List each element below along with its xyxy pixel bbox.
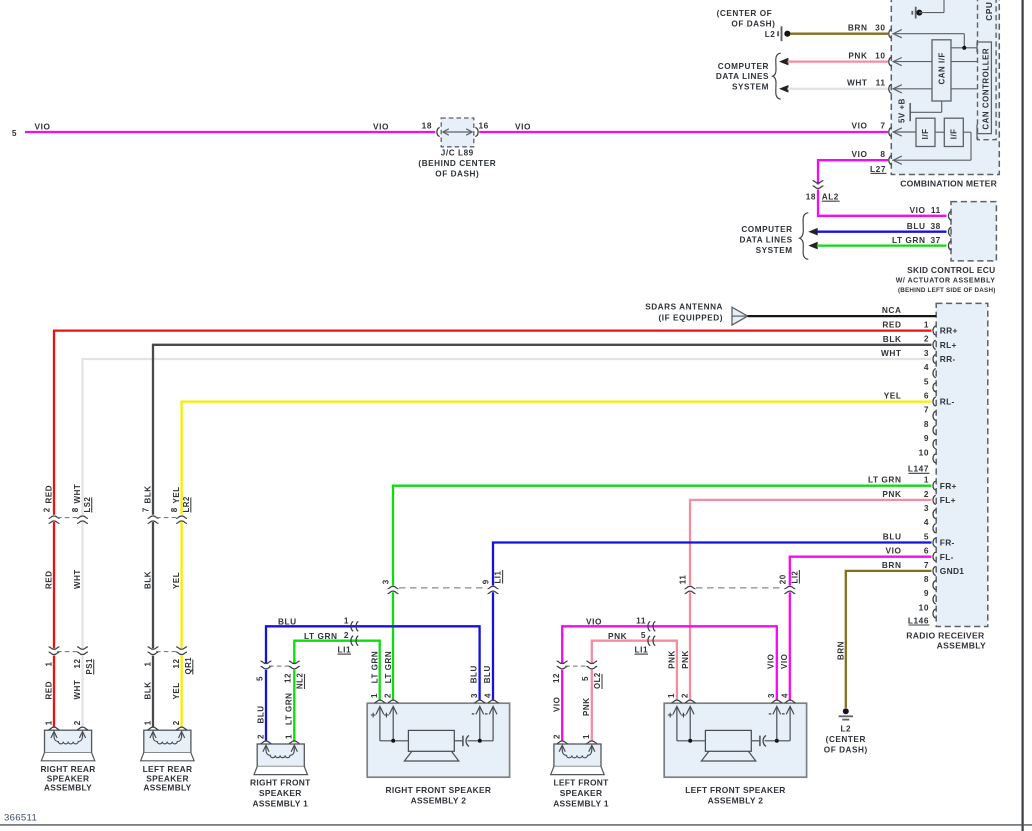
combination meter box fill xyxy=(891,0,999,175)
connector LI1 (blu half) xyxy=(488,586,499,593)
svg-text:NCA: NCA xyxy=(882,305,902,315)
OL2 tie line xyxy=(565,665,589,667)
svg-text:1: 1 xyxy=(285,734,294,739)
skid control ecu box fill+border xyxy=(951,202,996,261)
svg-text:1: 1 xyxy=(667,693,676,698)
wire VIO 8 upper segment xyxy=(818,160,888,184)
radio connector L146 pin 5 xyxy=(933,538,955,548)
svg-text:5: 5 xyxy=(641,630,646,640)
ground L2 (center of dash) top xyxy=(778,26,790,41)
right front speaker assembly 2 xyxy=(367,703,509,777)
left front speaker 2 caption xyxy=(685,785,785,805)
right front speaker 1 caption xyxy=(250,777,311,808)
svg-text:16: 16 xyxy=(479,120,489,130)
wire PNK to left speaker1 pin1 xyxy=(591,670,593,741)
skid ecu pin 38 terminal xyxy=(948,227,951,236)
connector LI1 (lt grn half) xyxy=(388,586,399,593)
svg-text:LT GRN: LT GRN xyxy=(285,693,294,725)
svg-text:SKID CONTROL ECU: SKID CONTROL ECU xyxy=(907,265,995,275)
svg-text:1: 1 xyxy=(924,475,929,485)
svg-text:+: + xyxy=(681,710,687,721)
svg-text:DATA LINES: DATA LINES xyxy=(716,72,769,81)
svg-text:1: 1 xyxy=(143,720,152,725)
svg-text:ASSEMBLY 2: ASSEMBLY 2 xyxy=(708,796,764,806)
svg-text:COMPUTER: COMPUTER xyxy=(718,62,769,71)
line brn pin internal xyxy=(893,33,965,35)
wire YEL RL- horizontal xyxy=(182,402,932,515)
svg-text:RL-: RL- xyxy=(940,397,955,407)
svg-text:1: 1 xyxy=(44,720,53,725)
svg-text:1: 1 xyxy=(924,320,929,330)
svg-text:8: 8 xyxy=(924,574,929,584)
radio connector L147 pin 1 xyxy=(933,326,958,336)
svg-text:8: 8 xyxy=(170,507,179,512)
svg-text:ASSEMBLY: ASSEMBLY xyxy=(143,783,191,793)
svg-text:4: 4 xyxy=(924,517,929,527)
left front speaker assembly 2 xyxy=(664,703,806,777)
combination meter pin 11 terminal xyxy=(889,84,902,93)
connector NL2 (lt grn half) xyxy=(289,661,300,669)
svg-text:38: 38 xyxy=(930,221,940,231)
svg-text:5: 5 xyxy=(924,531,929,541)
wire LT GRN to speaker1 pin1 xyxy=(293,670,295,741)
svg-text:3: 3 xyxy=(767,693,776,698)
right rear speaker assembly xyxy=(45,730,92,753)
ground symbol inside combination meter (top) xyxy=(912,7,922,19)
svg-text:VIO: VIO xyxy=(780,654,789,669)
can controller bracket xyxy=(977,42,991,139)
radio receiver caption xyxy=(906,631,986,651)
svg-text:DATA LINES: DATA LINES xyxy=(739,235,792,244)
svg-text:(CENTER OF: (CENTER OF xyxy=(717,9,773,18)
svg-text:OF DASH): OF DASH) xyxy=(435,169,479,178)
svg-text:+: + xyxy=(384,710,390,721)
svg-text:BLU: BLU xyxy=(483,665,492,683)
sdars antenna symbol xyxy=(732,307,748,325)
svg-text:L146: L146 xyxy=(908,615,929,625)
svg-text:VIO: VIO xyxy=(373,122,389,132)
LI2 tie line xyxy=(696,587,784,589)
svg-text:8: 8 xyxy=(71,507,80,512)
svg-text:L27: L27 xyxy=(870,164,886,174)
line can-if to can-controller (upper) xyxy=(951,47,977,49)
svg-text:2: 2 xyxy=(344,630,349,640)
connector PS1 (wht half) xyxy=(77,647,88,655)
svg-text:2: 2 xyxy=(73,720,82,725)
svg-text:2: 2 xyxy=(384,693,393,698)
svg-text:LI2: LI2 xyxy=(791,570,800,583)
svg-text:BLK: BLK xyxy=(143,485,152,503)
svg-text:VIO: VIO xyxy=(852,121,868,131)
wire WHT mid segment xyxy=(81,522,83,648)
svg-text:WHT: WHT xyxy=(73,680,82,700)
NL2 tie line xyxy=(269,665,291,667)
svg-text:VIO: VIO xyxy=(852,149,868,159)
radio connector L147 pin 8 xyxy=(933,425,936,434)
svg-text:VIO: VIO xyxy=(553,697,562,712)
svg-text:(CENTER: (CENTER xyxy=(826,735,866,744)
wire BLU to speaker2 pin4 xyxy=(492,592,494,700)
left rear speaker assembly xyxy=(144,730,191,753)
svg-text:I/F: I/F xyxy=(921,128,930,139)
junction dot on can-if line xyxy=(962,46,966,50)
radio connector L146 pin 8 xyxy=(933,581,936,590)
svg-text:-: - xyxy=(768,709,772,720)
wire BLU 38 xyxy=(817,231,947,233)
page right border line xyxy=(1021,0,1023,831)
svg-text:1: 1 xyxy=(44,662,53,667)
connector 11 on vio horizontal xyxy=(648,621,655,631)
svg-text:6: 6 xyxy=(924,546,929,556)
svg-text:FR-: FR- xyxy=(940,538,955,548)
svg-text:SPEAKER: SPEAKER xyxy=(259,788,302,798)
svg-text:+: + xyxy=(667,710,673,721)
svg-text:7: 7 xyxy=(141,507,150,512)
svg-text:BLU: BLU xyxy=(907,221,926,231)
J/C L89 caption xyxy=(418,149,496,179)
wire VIO to left speaker2 pin4 xyxy=(789,592,791,700)
svg-text:OL2: OL2 xyxy=(593,672,602,689)
i/f box 1 xyxy=(916,118,935,146)
svg-text:2: 2 xyxy=(42,507,51,512)
svg-text:BLK: BLK xyxy=(883,334,902,344)
svg-text:5: 5 xyxy=(12,128,17,138)
wire WHT 11 xyxy=(788,88,889,90)
skid ecu pin 11 terminal xyxy=(948,211,951,220)
wire BLU horizontal (speaker1 to speaker2 pin3) xyxy=(266,626,480,700)
radio connector L147 pin 6 xyxy=(933,397,955,407)
wire LT GRN to speaker2 pin2 xyxy=(392,592,394,700)
connector OL2 (vio half) xyxy=(557,661,568,669)
left rear speaker caption xyxy=(143,764,193,792)
LS2 tie line xyxy=(57,517,80,519)
svg-text:9: 9 xyxy=(924,433,929,443)
svg-text:BLK: BLK xyxy=(143,681,152,699)
svg-text:OF DASH): OF DASH) xyxy=(824,745,868,754)
radio connector L146 pin 1 xyxy=(933,481,957,491)
svg-text:+: + xyxy=(370,710,376,721)
svg-text:LEFT FRONT: LEFT FRONT xyxy=(553,777,609,787)
connector NL2 (blu half) xyxy=(261,661,272,669)
svg-text:PNK: PNK xyxy=(882,489,901,499)
wire YEL mid segment xyxy=(180,522,182,648)
svg-text:SYSTEM: SYSTEM xyxy=(756,246,793,255)
svg-text:10: 10 xyxy=(919,602,929,612)
svg-text:COMBINATION METER: COMBINATION METER xyxy=(900,179,997,189)
svg-text:4: 4 xyxy=(780,693,789,698)
svg-text:LT GRN: LT GRN xyxy=(384,651,393,683)
page bottom border line xyxy=(0,824,1032,826)
svg-text:CAN I/F: CAN I/F xyxy=(938,52,947,84)
svg-text:7: 7 xyxy=(880,121,885,131)
connector LR2 (yel half) xyxy=(176,516,187,523)
svg-text:18: 18 xyxy=(422,120,432,130)
svg-text:1: 1 xyxy=(370,693,379,698)
svg-text:3: 3 xyxy=(470,693,479,698)
wire BRN GND1 xyxy=(846,571,932,708)
LR2 tie line xyxy=(156,517,179,519)
svg-text:2: 2 xyxy=(924,489,929,499)
radio connector L147 pin 7 xyxy=(933,411,936,420)
svg-text:WHT: WHT xyxy=(73,569,82,589)
svg-text:10: 10 xyxy=(875,50,885,60)
svg-text:RED: RED xyxy=(882,320,901,330)
svg-text:-: - xyxy=(782,709,786,720)
svg-text:AL2: AL2 xyxy=(822,193,839,202)
line i/f box2 to vio8 pin xyxy=(963,131,971,133)
svg-text:YEL: YEL xyxy=(172,572,181,589)
svg-text:BRN: BRN xyxy=(837,641,846,660)
arrow blu (computer data lines) xyxy=(808,228,817,236)
wire YEL lower segment xyxy=(180,656,182,728)
svg-text:L147: L147 xyxy=(908,464,929,474)
connector LI2 (pnk half) xyxy=(685,586,696,593)
svg-text:7: 7 xyxy=(924,560,929,570)
radio connector L146 pin 10 xyxy=(933,609,936,618)
5v +b supply bar xyxy=(909,103,911,121)
svg-text:RIGHT FRONT: RIGHT FRONT xyxy=(250,777,311,787)
svg-text:BLU: BLU xyxy=(883,532,902,542)
svg-text:11: 11 xyxy=(876,78,886,88)
svg-text:ASSEMBLY: ASSEMBLY xyxy=(937,640,986,650)
svg-text:CPU: CPU xyxy=(984,2,994,21)
svg-text:1: 1 xyxy=(143,662,152,667)
radio connector L146 pin 3 xyxy=(933,510,936,519)
svg-text:2: 2 xyxy=(256,734,265,739)
svg-text:6: 6 xyxy=(924,391,929,401)
wire VIO FL- from radio xyxy=(790,557,932,586)
right rear speaker caption xyxy=(40,764,95,792)
computer data lines system label (lower) xyxy=(739,225,792,255)
svg-text:L2: L2 xyxy=(765,30,776,39)
skid control ecu caption xyxy=(896,265,996,294)
wire RED mid segment xyxy=(53,522,55,648)
ground L2 (center of dash) bottom xyxy=(839,708,853,719)
svg-text:FL+: FL+ xyxy=(940,495,956,505)
wire PNK horizontal (speaker1 to left speaker2 pin1) xyxy=(592,641,677,701)
svg-text:WHT: WHT xyxy=(73,484,82,504)
connector LS2 (red half) xyxy=(49,516,60,523)
svg-text:VIO: VIO xyxy=(910,205,926,215)
svg-text:LS2: LS2 xyxy=(83,496,92,512)
svg-text:(BEHIND CENTER: (BEHIND CENTER xyxy=(418,159,496,168)
svg-text:ASSEMBLY: ASSEMBLY xyxy=(44,783,92,793)
wire BLU to speaker1 pin2 xyxy=(265,670,267,741)
svg-text:7: 7 xyxy=(924,405,929,415)
svg-text:YEL: YEL xyxy=(172,486,181,503)
svg-text:COMPUTER: COMPUTER xyxy=(741,225,792,234)
arrow pnk (computer data lines) xyxy=(779,58,788,66)
svg-text:BRN: BRN xyxy=(848,22,868,32)
svg-text:SPEAKER: SPEAKER xyxy=(560,788,603,798)
svg-text:PNK: PNK xyxy=(668,650,677,669)
svg-text:3: 3 xyxy=(924,503,929,513)
svg-text:LI1: LI1 xyxy=(635,644,649,654)
svg-text:3: 3 xyxy=(924,348,929,358)
svg-text:11: 11 xyxy=(679,575,688,585)
wire VIO left segment xyxy=(25,131,435,133)
wire PNK FL+ from radio xyxy=(690,500,932,586)
radio receiver box xyxy=(936,303,988,626)
radio connector L147 pin 9 xyxy=(933,440,936,449)
svg-text:RED: RED xyxy=(44,681,53,700)
line wht pin to can-controller xyxy=(893,88,977,90)
connector QR1 (blk half) xyxy=(148,647,159,655)
combination meter pin 10 terminal xyxy=(889,57,902,66)
svg-text:2: 2 xyxy=(553,734,562,739)
svg-text:12: 12 xyxy=(284,673,293,683)
left front speaker 1 caption xyxy=(553,777,609,808)
svg-text:SYSTEM: SYSTEM xyxy=(732,83,769,92)
wire 5v to can i/f xyxy=(910,111,942,113)
radio connector L147 pin 3 xyxy=(933,354,956,364)
wire VIO horizontal (speaker1 to left speaker2 pin3) xyxy=(562,626,777,700)
svg-text:PNK: PNK xyxy=(582,697,591,716)
svg-text:ASSEMBLY 1: ASSEMBLY 1 xyxy=(553,798,609,808)
svg-text:WHT: WHT xyxy=(847,78,868,88)
radio connector L146 pin 6 xyxy=(933,552,954,562)
svg-text:LT GRN: LT GRN xyxy=(371,651,380,683)
sdars antenna caption xyxy=(645,303,723,323)
svg-text:-: - xyxy=(471,709,475,720)
combination meter pin 7 terminal xyxy=(889,127,902,136)
svg-text:BLK: BLK xyxy=(143,571,152,589)
svg-text:366511: 366511 xyxy=(4,813,37,824)
svg-text:5V +B: 5V +B xyxy=(898,98,907,123)
svg-text:NL2: NL2 xyxy=(296,673,305,689)
computer data lines system label (upper) xyxy=(716,62,769,92)
svg-text:(BEHIND LEFT SIDE OF DASH): (BEHIND LEFT SIDE OF DASH) xyxy=(898,287,996,294)
combination meter dashed border xyxy=(891,0,999,175)
arrow lt grn (computer data lines) xyxy=(808,242,817,250)
svg-text:BLU: BLU xyxy=(278,617,297,627)
svg-text:GND1: GND1 xyxy=(940,566,965,576)
svg-text:12: 12 xyxy=(73,659,82,669)
svg-text:1: 1 xyxy=(582,734,591,739)
svg-text:4: 4 xyxy=(483,693,492,698)
svg-text:LEFT FRONT SPEAKER: LEFT FRONT SPEAKER xyxy=(685,785,785,795)
svg-text:12: 12 xyxy=(172,659,181,669)
svg-text:1: 1 xyxy=(344,615,349,625)
svg-text:11: 11 xyxy=(931,205,941,215)
svg-text:PNK: PNK xyxy=(608,631,627,641)
svg-text:LR2: LR2 xyxy=(182,496,191,512)
combination meter pin 8 terminal xyxy=(889,156,902,165)
svg-text:20: 20 xyxy=(779,574,788,584)
svg-text:I/F: I/F xyxy=(950,128,959,139)
svg-text:VIO: VIO xyxy=(886,546,902,556)
svg-text:RADIO RECEIVER: RADIO RECEIVER xyxy=(906,631,985,641)
wire BRN 30 xyxy=(790,33,888,35)
radio connector L147 pin 4 xyxy=(933,369,936,378)
svg-text:YEL: YEL xyxy=(172,682,181,699)
svg-text:RR-: RR- xyxy=(940,354,956,364)
right front speaker 2 caption xyxy=(386,785,492,805)
svg-text:3: 3 xyxy=(382,579,391,584)
line pnk pin to can-controller xyxy=(893,61,977,63)
wire PNK 10 xyxy=(788,60,889,62)
svg-text:CAN CONTROLLER: CAN CONTROLLER xyxy=(982,48,991,130)
svg-text:2: 2 xyxy=(924,334,929,344)
svg-text:LI1: LI1 xyxy=(494,570,503,583)
wire LT GRN 37 xyxy=(817,244,947,246)
svg-text:RIGHT FRONT SPEAKER: RIGHT FRONT SPEAKER xyxy=(386,785,492,795)
radio connector L146 pin 4 xyxy=(933,524,936,533)
svg-text:RED: RED xyxy=(44,570,53,589)
svg-text:VIO: VIO xyxy=(586,617,602,627)
svg-text:WHT: WHT xyxy=(881,348,902,358)
connector 1 on blu horizontal xyxy=(351,621,358,631)
combination meter pin 30 terminal xyxy=(889,29,902,38)
svg-text:11: 11 xyxy=(636,615,646,625)
QR1 tie line xyxy=(156,651,179,653)
svg-text:YEL: YEL xyxy=(884,391,902,401)
svg-text:37: 37 xyxy=(930,235,940,245)
svg-text:(IF EQUIPPED): (IF EQUIPPED) xyxy=(659,313,723,322)
svg-text:FR+: FR+ xyxy=(940,481,957,491)
svg-text:2: 2 xyxy=(172,720,181,725)
i/f box 2 xyxy=(944,118,963,146)
svg-text:RR+: RR+ xyxy=(940,326,958,336)
radio connector L147 pin 5 xyxy=(933,383,936,392)
radio connector L146 pin 2 xyxy=(933,495,956,505)
line between i/f boxes xyxy=(935,131,944,133)
connector 2 on lt grn horizontal xyxy=(351,636,358,646)
wire PNK to left speaker2 pin2 xyxy=(689,592,691,700)
svg-text:J/C L89: J/C L89 xyxy=(441,149,474,158)
LI1 tie line xyxy=(399,587,487,589)
arrow wht (computer data lines) xyxy=(779,85,788,93)
svg-text:OF DASH): OF DASH) xyxy=(731,20,775,29)
svg-text:9: 9 xyxy=(482,579,491,584)
junction connector J/C L89 xyxy=(437,118,478,147)
wire BLK RL+ horizontal xyxy=(153,345,932,515)
svg-text:ASSEMBLY 2: ASSEMBLY 2 xyxy=(411,796,467,806)
svg-text:30: 30 xyxy=(875,22,885,32)
ground L2 bottom caption xyxy=(824,724,868,754)
brace upper xyxy=(773,53,781,99)
svg-text:LT GRN: LT GRN xyxy=(868,475,902,485)
right front speaker assembly 1 xyxy=(257,744,304,767)
connector LR2 (blk half) xyxy=(148,516,159,523)
svg-text:2: 2 xyxy=(681,693,690,698)
svg-text:BLU: BLU xyxy=(256,705,265,723)
connector OL2 (pnk half) xyxy=(586,661,597,669)
wire NCA xyxy=(748,315,937,317)
svg-text:5: 5 xyxy=(255,676,264,681)
svg-text:-: - xyxy=(485,709,489,720)
svg-text:QR1: QR1 xyxy=(184,657,193,675)
radio connector L146 pin 9 xyxy=(933,595,936,604)
radio connector L147 pin 10 xyxy=(933,454,936,463)
left front speaker assembly 1 xyxy=(554,744,601,767)
wire WHT RR- horizontal xyxy=(83,359,932,515)
connector AL2 xyxy=(813,181,824,189)
connector 5 on pnk horizontal xyxy=(648,636,655,646)
connector LS2 (wht half) xyxy=(77,516,88,523)
wire from internal ground to cpu xyxy=(919,12,944,14)
svg-text:ASSEMBLY 1: ASSEMBLY 1 xyxy=(252,798,308,808)
svg-text:PNK: PNK xyxy=(848,50,867,60)
svg-text:8: 8 xyxy=(880,149,885,159)
connector QR1 (yel half) xyxy=(176,647,187,655)
svg-text:BRN: BRN xyxy=(882,560,902,570)
wire WHT lower segment xyxy=(81,656,83,728)
line vio7 pin to i/f box xyxy=(893,131,917,133)
connector PS1 (red half) xyxy=(49,647,60,655)
wire LT GRN FR+ from radio xyxy=(393,486,932,586)
svg-text:LT GRN: LT GRN xyxy=(892,235,926,245)
